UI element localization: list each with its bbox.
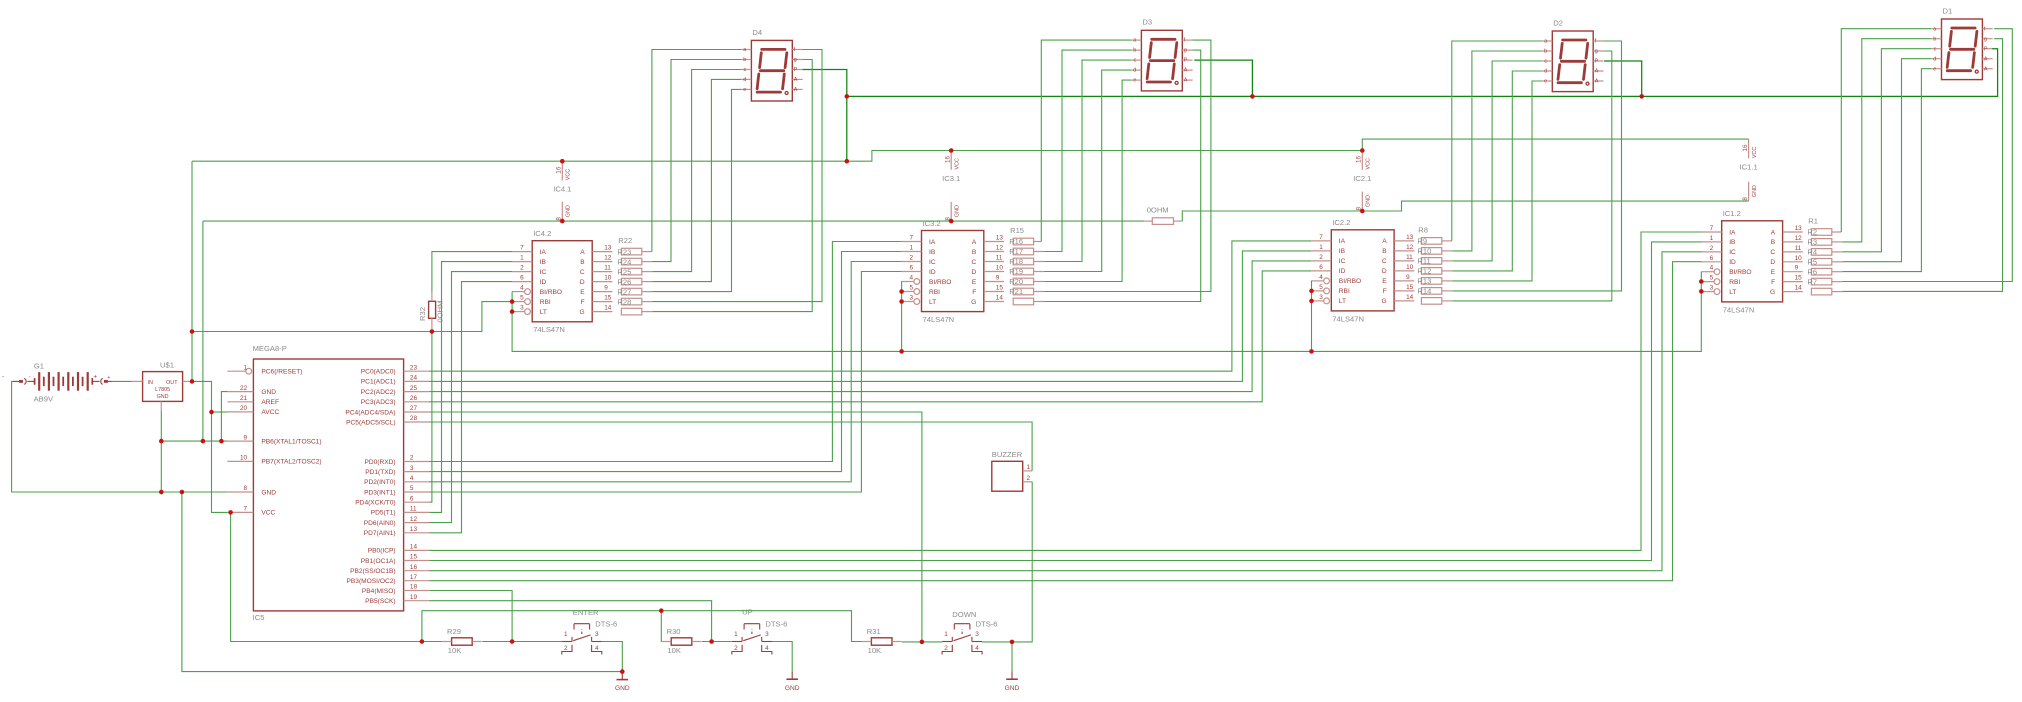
resistor R14 — [1421, 298, 1441, 305]
seven-segment display D1 — [1931, 6, 1993, 79]
svg-text:G: G — [971, 299, 976, 306]
wire PD7 to IC4 ID — [429, 282, 512, 533]
wire PC0 to IC2 IA — [429, 241, 1311, 371]
svg-text:4: 4 — [1710, 265, 1714, 272]
svg-text:G1: G1 — [34, 362, 44, 371]
svg-text:PC6(/RESET): PC6(/RESET) — [261, 369, 302, 376]
svg-text:4: 4 — [765, 645, 769, 652]
svg-text:E: E — [1382, 278, 1387, 285]
junction at (1362,150) — [1360, 148, 1365, 153]
svg-text:c: c — [1934, 46, 1937, 52]
svg-text:g: g — [1984, 36, 1987, 42]
svg-text:RBI: RBI — [1339, 288, 1350, 295]
svg-text:15: 15 — [410, 554, 418, 561]
svg-text:27: 27 — [410, 405, 418, 412]
seven-segment display D2 — [1542, 18, 1604, 91]
svg-text:PD2(INT0): PD2(INT0) — [364, 479, 396, 486]
svg-text:10: 10 — [1795, 255, 1803, 262]
svg-text:E: E — [972, 279, 977, 286]
resistor R21 — [1013, 298, 1033, 305]
wire D3 P pin down to anode rail — [1194, 60, 1252, 96]
svg-text:PB4(MISO): PB4(MISO) — [362, 588, 396, 595]
svg-text:4: 4 — [595, 645, 599, 652]
svg-text:2: 2 — [410, 455, 414, 462]
svg-text:-: - — [2, 373, 4, 380]
svg-text:VCC: VCC — [261, 510, 275, 517]
resistor R19 — [1013, 278, 1033, 285]
svg-text:IA: IA — [540, 249, 547, 256]
svg-text:PB2(SS/OC1B): PB2(SS/OC1B) — [350, 568, 395, 575]
svg-text:PC1(ADC1): PC1(ADC1) — [361, 379, 396, 386]
resistor R18 — [1013, 268, 1033, 275]
junction at (847,96) — [845, 94, 850, 99]
svg-text:A: A — [1184, 78, 1188, 84]
junction at (847,161) — [845, 159, 850, 164]
svg-text:R17: R17 — [1009, 247, 1023, 256]
resistor R27 — [621, 298, 641, 305]
svg-text:B: B — [1771, 239, 1776, 246]
svg-text:VCC: VCC — [954, 158, 960, 169]
svg-text:10K: 10K — [448, 646, 462, 655]
svg-text:1: 1 — [1027, 464, 1031, 471]
svg-text:BI/RBO: BI/RBO — [1729, 269, 1751, 276]
wire MEGA8 pin22 GND down to PB6 row — [221, 392, 227, 442]
svg-text:10: 10 — [604, 275, 612, 282]
wire AVCC tap — [212, 411, 228, 413]
svg-text:D: D — [972, 269, 977, 276]
svg-text:R1: R1 — [1808, 217, 1818, 226]
svg-text:11: 11 — [604, 265, 611, 272]
svg-text:e: e — [1133, 78, 1136, 84]
svg-text:PB1(OC1A): PB1(OC1A) — [361, 558, 396, 565]
resistor R26 — [621, 288, 641, 295]
svg-text:R30: R30 — [667, 627, 681, 636]
resistor R5 — [1811, 268, 1831, 275]
resistor output leads — [642, 251, 652, 253]
svg-text:g: g — [794, 57, 797, 63]
svg-text:R29: R29 — [447, 627, 461, 636]
svg-text:0OHM: 0OHM — [436, 301, 445, 323]
svg-text:A: A — [1595, 79, 1599, 85]
resistor R7 — [1811, 288, 1831, 295]
svg-text:R4: R4 — [1807, 248, 1817, 257]
resistor R31 10K — [862, 627, 901, 655]
svg-text:L7805: L7805 — [155, 387, 170, 393]
svg-text:R24: R24 — [617, 257, 631, 266]
svg-text:IA: IA — [1729, 229, 1736, 236]
svg-text:BI/RBO: BI/RBO — [929, 279, 951, 286]
resistor network R8..R14 — [1417, 226, 1441, 305]
svg-text:P: P — [1595, 59, 1599, 65]
junction at (512,642) — [510, 639, 515, 644]
svg-text:g: g — [1595, 49, 1598, 55]
svg-text:12: 12 — [1795, 235, 1803, 242]
svg-text:15: 15 — [1406, 284, 1414, 291]
svg-text:7: 7 — [244, 506, 248, 513]
svg-text:1: 1 — [564, 631, 568, 638]
svg-text:D: D — [1382, 268, 1387, 275]
svg-text:25: 25 — [410, 385, 418, 392]
svg-text:1: 1 — [909, 245, 913, 252]
svg-text:IC5: IC5 — [253, 613, 265, 622]
svg-text:16: 16 — [410, 564, 418, 571]
microcontroller IC5 MEGA8-P — [227, 344, 429, 622]
wire PD1 to IC3 IB — [429, 252, 901, 472]
svg-text:RBI: RBI — [929, 289, 940, 296]
svg-text:g: g — [1184, 48, 1187, 54]
wire PC4 down to DOWN button — [429, 412, 922, 642]
svg-text:LT: LT — [540, 309, 547, 316]
wire R30 to UP switch — [702, 641, 732, 643]
svg-text:A: A — [1984, 56, 1988, 62]
svg-text:A: A — [1382, 238, 1387, 245]
svg-text:IB: IB — [929, 249, 936, 256]
svg-text:14: 14 — [604, 305, 612, 312]
svg-text:R20: R20 — [1009, 277, 1023, 286]
wire R1 B to D1 b — [1842, 39, 1931, 242]
wire VCC down to button feed rail — [231, 512, 422, 641]
svg-text:PB0(ICP): PB0(ICP) — [368, 548, 396, 555]
resistor R22 — [621, 248, 641, 255]
svg-text:IC1.1: IC1.1 — [1740, 163, 1758, 172]
svg-text:R12: R12 — [1417, 267, 1431, 276]
svg-text:GND: GND — [261, 489, 276, 496]
svg-text:14: 14 — [1795, 285, 1803, 292]
resistor R30 10K — [662, 627, 701, 655]
svg-text:R32: R32 — [418, 307, 427, 321]
svg-text:D1: D1 — [1943, 6, 1953, 15]
power symbol IC4.1 (VCC pin 16 / GND pin 8) — [553, 161, 571, 221]
wire BI/RBI/LT rail across decoders — [512, 272, 1701, 352]
svg-text:IB: IB — [1339, 248, 1346, 255]
junction at (192,332) — [190, 329, 195, 334]
svg-text:ID: ID — [1339, 268, 1346, 275]
wire R32 top to IC4 IA — [432, 252, 512, 292]
wire DOWN switch to GND — [982, 642, 1012, 671]
svg-text:R2: R2 — [1807, 228, 1817, 237]
svg-text:R16: R16 — [1009, 237, 1023, 246]
svg-text:3: 3 — [765, 631, 769, 638]
wire PD5 to IC4 IB — [429, 262, 512, 513]
wire PC3 to IC2 ID — [429, 271, 1311, 402]
svg-text:PD6(AIN0): PD6(AIN0) — [364, 520, 396, 527]
svg-text:U$1: U$1 — [160, 361, 174, 370]
ground symbol GND — [1005, 671, 1020, 692]
svg-text:6: 6 — [1319, 264, 1323, 271]
svg-text:RBI: RBI — [540, 299, 551, 306]
svg-text:A: A — [794, 87, 798, 93]
svg-text:P: P — [1984, 46, 1988, 52]
svg-text:10: 10 — [996, 265, 1004, 272]
svg-text:74LS47N: 74LS47N — [923, 315, 955, 324]
svg-text:4: 4 — [975, 645, 979, 652]
wire R15 C to D3 c — [1044, 60, 1131, 261]
svg-text:IC2.2: IC2.2 — [1332, 218, 1350, 227]
resistor R25 — [621, 278, 641, 285]
svg-text:PB5(SCK): PB5(SCK) — [365, 598, 395, 605]
resistor R2 — [1811, 239, 1831, 246]
junction at (922,642) — [920, 640, 925, 645]
svg-text:9: 9 — [244, 434, 248, 441]
svg-text:0OHM: 0OHM — [1147, 205, 1169, 214]
svg-text:6: 6 — [909, 265, 913, 272]
resistor R6 — [1811, 278, 1831, 285]
74LS47N decoder IC4.2 — [512, 229, 612, 334]
svg-text:IC1.2: IC1.2 — [1723, 209, 1741, 218]
svg-text:d: d — [1133, 68, 1136, 74]
svg-text:RBI: RBI — [1729, 279, 1740, 286]
svg-text:b: b — [743, 57, 746, 63]
svg-text:24: 24 — [410, 375, 418, 382]
svg-text:IB: IB — [540, 259, 547, 266]
wire R22 A to D4 a — [652, 50, 741, 252]
svg-text:R7: R7 — [1807, 277, 1817, 286]
svg-text:IC2.1: IC2.1 — [1353, 174, 1371, 183]
svg-text:D2: D2 — [1553, 18, 1563, 27]
resistor network R1..R7 — [1807, 217, 1831, 295]
svg-text:A: A — [794, 77, 798, 83]
junction at (161,441) — [159, 439, 164, 444]
svg-text:2: 2 — [1027, 475, 1031, 482]
junction at (562,161) — [560, 159, 565, 164]
svg-text:12: 12 — [604, 255, 612, 262]
svg-text:8: 8 — [244, 485, 248, 492]
svg-text:R10: R10 — [1417, 247, 1431, 256]
ground symbol GND — [785, 671, 800, 692]
wire U$1 OUT to MEGA8 VCC pin — [192, 381, 227, 512]
resistor R4 — [1811, 259, 1831, 266]
svg-text:IC4.1: IC4.1 — [553, 185, 571, 194]
svg-text:1: 1 — [520, 255, 524, 262]
wire PD3 to IC3 ID — [429, 272, 901, 493]
svg-text:2: 2 — [564, 645, 568, 652]
wire PB6 row to GND vertical — [161, 440, 227, 442]
svg-text:8: 8 — [1742, 197, 1749, 201]
svg-text:1: 1 — [944, 631, 948, 638]
svg-text:12: 12 — [996, 245, 1004, 252]
svg-text:14: 14 — [410, 544, 418, 551]
svg-text:15: 15 — [1795, 275, 1803, 282]
resistor R20 — [1013, 288, 1033, 295]
junction at (1362,211) — [1360, 209, 1365, 214]
svg-text:PC3(ADC3): PC3(ADC3) — [361, 399, 396, 406]
resistor R11 — [1421, 268, 1441, 275]
wire GND rail left vertical down to PB6 row — [202, 221, 204, 441]
svg-text:6: 6 — [1710, 255, 1714, 262]
wire GND rail left part — [203, 220, 1144, 222]
seven-segment display D3 — [1131, 18, 1193, 91]
junction at (161,492) — [159, 490, 164, 495]
wire PB4 down to ENTER button — [429, 591, 512, 642]
resistor R16 — [1013, 248, 1033, 255]
svg-text:1: 1 — [244, 364, 248, 371]
junction at (902,351) — [899, 349, 904, 354]
wire PC1 to IC2 IB — [429, 251, 1311, 382]
resistor output leads — [1442, 240, 1452, 242]
svg-text:22: 22 — [240, 385, 248, 392]
svg-text:6: 6 — [520, 275, 524, 282]
svg-text:4: 4 — [1319, 274, 1323, 281]
wire R22 C to D4 c — [652, 70, 741, 272]
svg-text:IC3.2: IC3.2 — [923, 219, 941, 228]
junction at (562,221) — [560, 219, 565, 224]
svg-text:d: d — [743, 77, 746, 83]
74LS47N decoder IC3.2 — [901, 219, 1004, 324]
junction at (212,412) — [209, 410, 214, 415]
svg-text:C: C — [972, 259, 977, 266]
wire R15 F to D3 f — [1044, 40, 1211, 291]
wire PB3 to IC1 ID — [429, 262, 1701, 581]
resistor R1 — [1811, 229, 1831, 236]
junction at (512,302) — [510, 299, 515, 304]
svg-text:b: b — [1544, 49, 1547, 55]
wire VCC rail — [192, 139, 1749, 161]
svg-text:13: 13 — [996, 235, 1004, 242]
junction at (622,672) — [620, 669, 625, 674]
svg-text:G: G — [1770, 289, 1775, 296]
svg-text:B: B — [580, 259, 585, 266]
svg-text:AVCC: AVCC — [261, 409, 279, 416]
junction at (182,492) — [180, 490, 185, 495]
svg-text:ID: ID — [540, 279, 547, 286]
svg-text:74LS47N: 74LS47N — [1723, 305, 1755, 314]
junction at (192,381) — [190, 379, 195, 384]
svg-text:R9: R9 — [1417, 237, 1427, 246]
wire R22 E to D4 e — [652, 89, 741, 291]
svg-text:IC3.1: IC3.1 — [942, 174, 960, 183]
svg-text:IC: IC — [929, 259, 936, 266]
svg-text:2: 2 — [1319, 254, 1323, 261]
svg-text:c: c — [1133, 58, 1136, 64]
svg-text:2: 2 — [1710, 245, 1714, 252]
junction at (1312,301) — [1309, 299, 1314, 304]
svg-text:5: 5 — [1710, 275, 1714, 282]
svg-text:PC2(ADC2): PC2(ADC2) — [361, 389, 396, 396]
junction at (902,292) — [899, 289, 904, 294]
svg-text:12: 12 — [1406, 244, 1414, 251]
svg-text:5: 5 — [1319, 284, 1323, 291]
junction at (512,312) — [510, 309, 515, 314]
buzzer BUZZER — [992, 450, 1032, 491]
svg-text:1: 1 — [734, 631, 738, 638]
svg-text:17: 17 — [410, 574, 418, 581]
svg-text:9: 9 — [604, 285, 608, 292]
svg-text:IC4.2: IC4.2 — [533, 229, 551, 238]
svg-text:13: 13 — [410, 526, 418, 533]
resistor R9 — [1421, 248, 1441, 255]
svg-text:A: A — [1595, 69, 1599, 75]
svg-text:DTS-6: DTS-6 — [976, 620, 998, 629]
wire R15 E to D3 e — [1044, 80, 1131, 281]
svg-text:15: 15 — [996, 285, 1004, 292]
wire PC2 to IC2 IC — [429, 261, 1311, 392]
svg-text:R28: R28 — [617, 297, 631, 306]
svg-text:PC0(ADC0): PC0(ADC0) — [361, 369, 396, 376]
wire R1 E to D1 e — [1842, 69, 1931, 272]
svg-text:LT: LT — [1729, 289, 1736, 296]
svg-text:GND: GND — [1366, 195, 1372, 207]
svg-text:4: 4 — [410, 475, 414, 482]
wire R22 D to D4 d — [652, 79, 741, 281]
svg-text:LT: LT — [1339, 298, 1346, 305]
74LS47N decoder IC1.2 — [1702, 209, 1803, 314]
svg-text:BI/RBO: BI/RBO — [1339, 278, 1361, 285]
svg-text:R19: R19 — [1009, 267, 1023, 276]
svg-text:GND: GND — [785, 685, 800, 692]
svg-text:10: 10 — [1406, 264, 1414, 271]
wire R8 G to D2 g — [1452, 51, 1612, 301]
svg-text:16: 16 — [556, 166, 563, 174]
wire R22 G to D4 g — [652, 60, 812, 312]
wire feed drop to R30 — [660, 611, 663, 642]
svg-text:14: 14 — [1406, 294, 1414, 301]
svg-text:74LS47N: 74LS47N — [533, 325, 565, 334]
svg-text:G: G — [1381, 298, 1386, 305]
wire R22 B to D4 b — [652, 60, 741, 262]
svg-text:IC: IC — [1339, 258, 1346, 265]
svg-text:E: E — [1771, 269, 1776, 276]
junction at (221,441) — [219, 439, 224, 444]
resistor network R22..R28 — [617, 236, 641, 315]
svg-text:P: P — [794, 67, 798, 73]
resistor R3 — [1811, 249, 1831, 256]
svg-text:IC: IC — [540, 269, 547, 276]
svg-text:D3: D3 — [1142, 18, 1152, 27]
svg-text:4: 4 — [520, 285, 524, 292]
svg-text:7: 7 — [1710, 225, 1714, 232]
wire PD2 to IC3 IC — [429, 262, 901, 482]
svg-text:VCC: VCC — [566, 169, 572, 180]
svg-text:5: 5 — [520, 295, 524, 302]
svg-text:R23: R23 — [617, 247, 631, 256]
svg-text:PB6(XTAL1/TOSC1): PB6(XTAL1/TOSC1) — [261, 438, 321, 445]
wire anode rail to D1 P pin — [847, 49, 1998, 97]
svg-text:IA: IA — [1339, 238, 1346, 245]
wire PB5 down to UP button — [429, 601, 711, 642]
svg-text:11: 11 — [1406, 254, 1413, 261]
svg-text:IN: IN — [148, 380, 153, 386]
svg-text:11: 11 — [410, 506, 417, 513]
wire R1 C to D1 c — [1842, 49, 1931, 252]
svg-text:c: c — [743, 67, 746, 73]
resistor 0OHM (in GND rail) — [1144, 205, 1182, 224]
wire R1 G to D1 g — [1842, 39, 2002, 292]
wire R8 B to D2 b — [1452, 51, 1542, 251]
svg-text:DTS-6: DTS-6 — [765, 620, 787, 629]
resistor R17 — [1013, 258, 1033, 265]
voltage regulator U$1 L7805 — [132, 361, 192, 412]
svg-text:GND: GND — [261, 389, 276, 396]
svg-text:PD7(AIN1): PD7(AIN1) — [364, 530, 396, 537]
svg-text:2: 2 — [909, 255, 913, 262]
svg-text:AREF: AREF — [261, 399, 279, 406]
wire R8 F to D2 f — [1452, 41, 1621, 291]
wire GND rail right part — [1182, 201, 1748, 221]
resistor R32 0OHM (vertical) — [418, 292, 445, 332]
svg-text:2: 2 — [944, 645, 948, 652]
svg-text:R22: R22 — [618, 236, 632, 245]
seven-segment display D4 — [741, 28, 803, 101]
junction at (902,302) — [899, 299, 904, 304]
svg-text:3: 3 — [520, 305, 524, 312]
svg-text:9: 9 — [996, 275, 1000, 282]
svg-text:R6: R6 — [1807, 267, 1817, 276]
svg-text:D: D — [1770, 259, 1775, 266]
wire VCC spur rail to IC4 RBI — [192, 302, 512, 332]
svg-text:D4: D4 — [752, 28, 762, 37]
resistor R13 — [1421, 288, 1441, 295]
resistor output leads — [1832, 231, 1842, 233]
